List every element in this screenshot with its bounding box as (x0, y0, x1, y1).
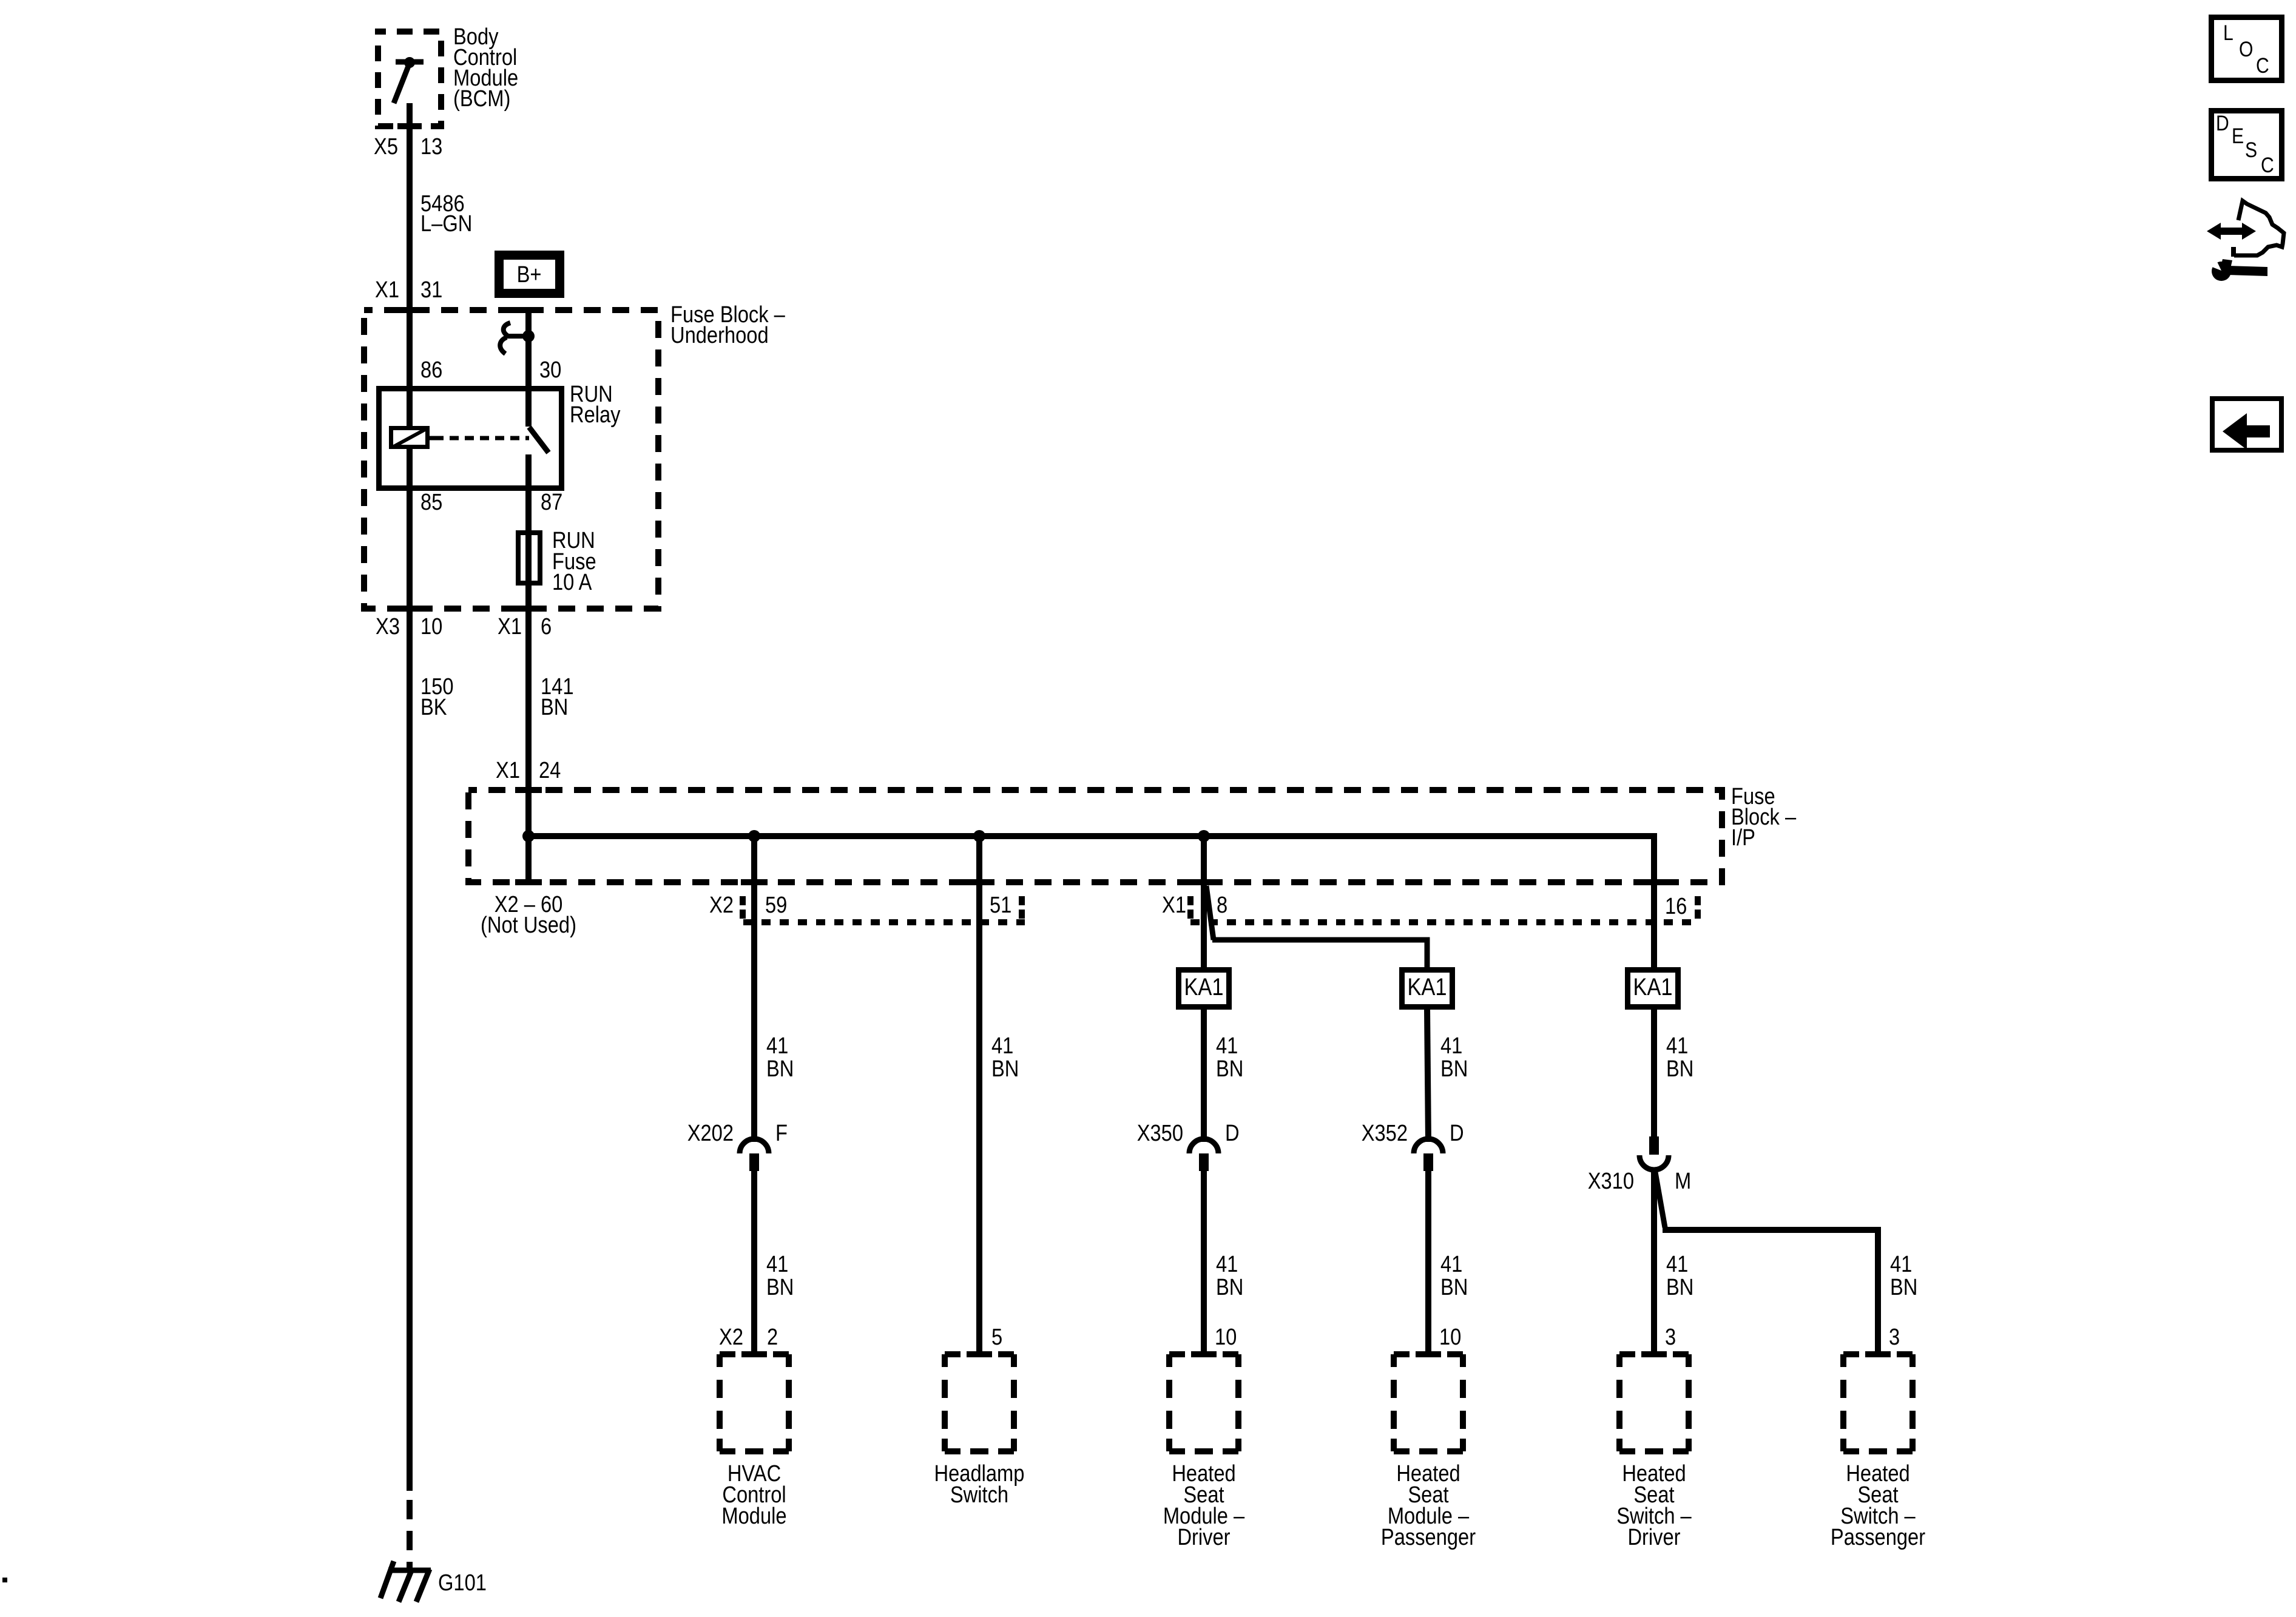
svg-text:41: 41 (1440, 1251, 1462, 1277)
svg-text:E: E (2232, 124, 2244, 148)
svg-text:D: D (1450, 1120, 1464, 1146)
svg-text:59: 59 (765, 892, 787, 918)
svg-text:Driver: Driver (1627, 1524, 1680, 1550)
svg-text:10: 10 (1215, 1324, 1237, 1350)
svg-text:Passenger: Passenger (1381, 1524, 1476, 1550)
svg-text:X3: X3 (376, 613, 400, 640)
svg-text:30: 30 (539, 357, 561, 383)
svg-text:3: 3 (1889, 1324, 1900, 1350)
svg-text:41: 41 (1216, 1251, 1238, 1277)
svg-text:BN: BN (1440, 1274, 1468, 1300)
svg-text:BN: BN (1666, 1274, 1693, 1300)
svg-text:BN: BN (1216, 1056, 1243, 1082)
svg-text:6: 6 (541, 613, 552, 640)
svg-text:O: O (2239, 37, 2253, 61)
svg-text:X350: X350 (1137, 1120, 1183, 1146)
svg-text:86: 86 (420, 357, 442, 383)
svg-text:41: 41 (1666, 1033, 1688, 1059)
svg-text:Relay: Relay (570, 402, 621, 428)
svg-text:L: L (2223, 21, 2234, 45)
svg-text:2: 2 (767, 1324, 778, 1350)
svg-text:BN: BN (1890, 1274, 1917, 1300)
svg-text:10 A: 10 A (552, 569, 592, 595)
svg-text:BN: BN (1440, 1056, 1468, 1082)
svg-text:24: 24 (539, 757, 561, 783)
svg-text:BN: BN (766, 1056, 794, 1082)
svg-text:13: 13 (420, 133, 442, 160)
svg-text:Switch: Switch (950, 1482, 1008, 1508)
svg-text:X352: X352 (1362, 1120, 1408, 1146)
svg-text:F: F (775, 1120, 788, 1146)
svg-text:85: 85 (420, 489, 442, 515)
svg-text:41: 41 (1666, 1251, 1688, 1277)
svg-text:X5: X5 (374, 133, 398, 160)
svg-text:X1: X1 (1162, 892, 1186, 918)
svg-text:BN: BN (766, 1274, 794, 1300)
svg-text:KA1: KA1 (1184, 973, 1223, 1001)
svg-text:C: C (2256, 53, 2269, 78)
svg-text:16: 16 (1665, 893, 1687, 919)
svg-text:BN: BN (991, 1056, 1019, 1082)
svg-text:KA1: KA1 (1633, 973, 1672, 1001)
svg-text:5: 5 (991, 1324, 1002, 1350)
svg-text:X1: X1 (498, 613, 522, 640)
svg-text:BN: BN (1666, 1056, 1693, 1082)
svg-text:B+: B+ (517, 262, 542, 288)
svg-text:51: 51 (990, 892, 1011, 918)
svg-text:C: C (2261, 153, 2274, 177)
svg-text:D: D (1225, 1120, 1240, 1146)
svg-text:L–GN: L–GN (420, 211, 472, 237)
svg-text:D: D (2216, 111, 2229, 135)
svg-text:10: 10 (1439, 1324, 1461, 1350)
svg-text:X202: X202 (687, 1120, 734, 1146)
svg-text:Passenger: Passenger (1831, 1524, 1925, 1550)
svg-text:S: S (2245, 138, 2257, 162)
svg-text:X1: X1 (496, 757, 520, 783)
svg-text:8: 8 (1217, 892, 1227, 918)
svg-text:87: 87 (541, 489, 562, 515)
svg-text:41: 41 (1890, 1251, 1912, 1277)
svg-text:41: 41 (1440, 1033, 1462, 1059)
svg-text:I/P: I/P (1731, 825, 1755, 851)
svg-text:X1: X1 (375, 277, 399, 303)
svg-text:(Not Used): (Not Used) (481, 912, 576, 938)
svg-text:KA1: KA1 (1407, 973, 1447, 1001)
svg-text:Driver: Driver (1177, 1524, 1230, 1550)
svg-text:Module: Module (721, 1503, 786, 1529)
svg-text:Underhood: Underhood (670, 322, 769, 348)
svg-text:BK: BK (420, 694, 447, 720)
svg-text:M: M (1675, 1168, 1691, 1194)
svg-text:(BCM): (BCM) (453, 86, 510, 112)
svg-text:10: 10 (420, 613, 442, 640)
svg-text:41: 41 (1216, 1033, 1238, 1059)
svg-text:BN: BN (541, 694, 568, 720)
svg-text:X2: X2 (709, 892, 734, 918)
svg-text:3: 3 (1665, 1324, 1676, 1350)
svg-text:41: 41 (991, 1033, 1013, 1059)
svg-text:X310: X310 (1588, 1168, 1634, 1194)
svg-text:31: 31 (420, 277, 442, 303)
svg-text:G101: G101 (438, 1570, 487, 1596)
svg-text:41: 41 (766, 1033, 788, 1059)
svg-text:41: 41 (766, 1251, 788, 1277)
svg-text:BN: BN (1216, 1274, 1243, 1300)
svg-text:X2: X2 (719, 1324, 743, 1350)
